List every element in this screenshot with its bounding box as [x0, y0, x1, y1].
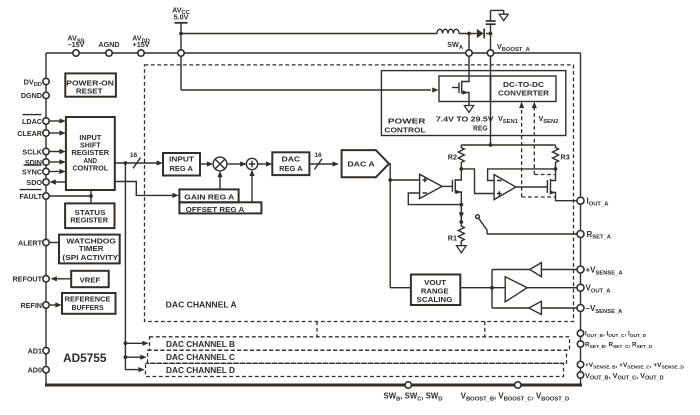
wire minus sense to pin	[541, 307, 577, 309]
DAC CHANNEL A dashed box	[145, 65, 574, 322]
DAC REG A box	[272, 152, 309, 175]
pin SW_BCD bottom	[384, 382, 443, 403]
arrowhead into reg box	[432, 87, 438, 92]
pin ALERT	[18, 238, 59, 247]
wire R2 node to amp2 plus	[461, 169, 494, 194]
STATUS REGISTER box	[65, 203, 114, 228]
POWER-ON RESET label	[66, 78, 114, 95]
DAC CHANNEL C label	[166, 353, 235, 362]
svg-text:DC-TO-DC: DC-TO-DC	[503, 80, 545, 89]
svg-text:POWER: POWER	[388, 117, 426, 126]
node AVCC junction dot	[179, 32, 183, 36]
wire AVCC to power control	[181, 89, 431, 91]
DAC A pentagon	[342, 150, 389, 177]
wire plus sense to pin	[541, 269, 577, 271]
wire AVCC vertical	[180, 23, 182, 90]
svg-text:DAC A: DAC A	[347, 160, 375, 169]
pin SW_A	[447, 40, 472, 56]
wire inductor to diode	[459, 33, 477, 35]
node R2 bottom dot	[459, 167, 463, 171]
svg-text:CLEAR: CLEAR	[17, 129, 43, 138]
bus width slash 16	[130, 152, 141, 168]
AD5755 label	[63, 351, 107, 365]
DAC A label	[347, 160, 375, 169]
DC-TO-DC CONVERTER box	[491, 76, 557, 102]
chip boundary top edge	[46, 52, 581, 54]
wire dac a to vout scaling	[390, 287, 411, 289]
VSEN2 dashed sense line	[532, 102, 555, 175]
pin REFOUT	[12, 275, 71, 284]
svg-text:VBOOST_B, VBOOST_C, VBOOST_D: VBOOST_B, VBOOST_C, VBOOST_D	[461, 392, 569, 403]
svg-text:16: 16	[314, 152, 322, 159]
svg-text:16: 16	[130, 152, 138, 159]
svg-text:AGND: AGND	[98, 40, 119, 49]
buffer plus sense	[530, 263, 542, 277]
node R3 bottom dot	[554, 167, 558, 171]
POWER-ON RESET box	[65, 73, 116, 96]
DAC CHANNEL A label	[166, 301, 237, 310]
schottky diode D1	[477, 29, 484, 39]
pin AVDD	[132, 34, 150, 57]
svg-text:SCALING: SCALING	[417, 295, 453, 304]
svg-text:CONTROL: CONTROL	[72, 163, 108, 172]
capacitor C1	[486, 10, 496, 33]
ground symbol under reg box	[464, 106, 473, 113]
wire upper sense	[492, 269, 530, 271]
svg-text:REG: REG	[473, 123, 488, 132]
svg-text:AD5755: AD5755	[63, 351, 107, 365]
ground symbol below R1	[457, 246, 467, 253]
svg-text:VSEN1: VSEN1	[498, 114, 519, 125]
WATCHDOG TIMER label	[62, 237, 121, 262]
inductor L1	[437, 29, 459, 33]
wire input reg to multiplier	[200, 161, 213, 166]
rail VBOOST to R2 R3	[461, 144, 555, 146]
svg-text:REFERENCE: REFERENCE	[65, 295, 111, 304]
svg-text:TIMER: TIMER	[79, 244, 104, 253]
wire sense branch vertical	[491, 270, 493, 309]
svg-text:BUFFERS: BUFFERS	[72, 303, 104, 312]
wire SW_A down to mosfet drain	[462, 56, 469, 81]
svg-text:DAC CHANNEL B: DAC CHANNEL B	[166, 340, 235, 349]
svg-text:SWA: SWA	[447, 40, 464, 51]
pin AVSS	[67, 34, 84, 57]
svg-text:REFOUT: REFOUT	[12, 275, 42, 284]
svg-text:RESET: RESET	[76, 87, 103, 96]
svg-text:–VSENSE_A: –VSENSE_A	[586, 304, 624, 315]
node SW junction dot	[467, 32, 471, 36]
wire gain reg to multiplier	[217, 171, 222, 190]
VSEN1 dashed sense line	[519, 102, 556, 197]
pin +VSENSE_BCD	[577, 361, 684, 370]
node bus junction dot	[124, 161, 128, 165]
svg-text:SCLK: SCLK	[22, 147, 42, 156]
svg-text:VREF: VREF	[80, 275, 101, 284]
DAC CHANNEL D label	[166, 366, 235, 375]
svg-text:CONTROL: CONTROL	[384, 125, 426, 134]
svg-text:5.0V: 5.0V	[174, 12, 189, 21]
wire to RSET pin	[487, 233, 577, 235]
pin VBOOST_BCD bottom	[461, 382, 569, 403]
resistor R1	[448, 222, 465, 245]
wire to amp1 plus input	[390, 179, 419, 181]
buffer amp output A	[505, 277, 527, 302]
node feeder dot C	[124, 355, 147, 360]
OFFSET REG A box	[179, 202, 261, 213]
buffer minus sense	[529, 301, 542, 314]
svg-text:+15V: +15V	[133, 40, 150, 49]
pin SYNC	[22, 165, 66, 176]
svg-text:VOUT_B, VOUT_C, VOUT_D: VOUT_B, VOUT_C, VOUT_D	[585, 371, 664, 382]
svg-text:AD1: AD1	[28, 346, 42, 355]
7.4V TO 29.5V REG box	[439, 76, 491, 102]
svg-text:IOUT_A: IOUT_A	[587, 197, 610, 208]
VOUT RANGE SCALING box	[411, 275, 460, 306]
VREF box	[71, 271, 109, 287]
node source dot	[459, 203, 463, 207]
node R1 top dot	[459, 220, 463, 224]
wire R3 node feedback to amp2 minus	[488, 169, 556, 181]
svg-text:REG A: REG A	[170, 164, 194, 173]
INPUT SHIFT REGISTER AND CONTROL label	[71, 133, 109, 172]
DAC REG A label	[279, 155, 303, 173]
resistor R2	[448, 145, 465, 169]
svg-text:–15V: –15V	[68, 40, 85, 49]
transistor Q1	[452, 169, 461, 205]
multiplier node	[213, 157, 227, 171]
POWER CONTROL outer box	[381, 71, 565, 136]
transistor Q2	[547, 169, 577, 201]
svg-text:RSET_A: RSET_A	[587, 230, 612, 241]
VOUT RANGE SCALING label	[417, 278, 453, 304]
node feeder dot B	[124, 341, 149, 346]
wire vout scaling to buffer	[460, 287, 505, 289]
wire main data bus	[115, 160, 163, 165]
svg-text:IOUT_B, IOUT_C, IOUT_D: IOUT_B, IOUT_C, IOUT_D	[585, 331, 647, 339]
switch contact circle	[476, 215, 480, 219]
pin SDO	[26, 178, 65, 187]
pin VOUT_BCD	[577, 371, 663, 382]
pin REFIN	[20, 301, 61, 310]
wire offset reg to adder	[249, 170, 254, 203]
chip boundary right edge	[580, 53, 582, 385]
svg-text:R3: R3	[561, 153, 570, 162]
pin +VSENSE_A	[577, 266, 623, 277]
DAC CHANNEL B label	[166, 340, 235, 349]
switch blade	[479, 218, 487, 234]
pin AD0	[28, 366, 50, 375]
op-amp A1	[420, 174, 442, 198]
svg-text:DAC CHANNEL C: DAC CHANNEL C	[166, 353, 235, 362]
wire shiftreg to gain reg	[115, 182, 179, 198]
OFFSET REG A label	[186, 205, 245, 214]
node dac a branch dot	[388, 178, 392, 182]
svg-text:R1: R1	[448, 234, 457, 243]
node rail dot	[489, 143, 493, 147]
svg-text:7.4V TO 29.5V: 7.4V TO 29.5V	[436, 115, 494, 124]
VREF label	[80, 275, 101, 284]
svg-text:DAC CHANNEL A: DAC CHANNEL A	[166, 301, 237, 310]
pin AVCC on rail	[178, 50, 184, 56]
pin LDAC	[22, 115, 66, 126]
REFERENCE BUFFERS label	[65, 295, 111, 313]
pin IOUT_A	[577, 197, 609, 208]
7.4V TO 29.5V REG label	[436, 115, 494, 133]
wire VBOOST down through power box	[490, 56, 492, 145]
svg-text:REGISTER: REGISTER	[70, 216, 108, 225]
pin IOUT_BCD	[577, 330, 646, 339]
pin AGND	[98, 40, 119, 56]
svg-text:DVDD: DVDD	[24, 77, 42, 88]
pin DVDD	[24, 77, 50, 88]
POWER CONTROL label	[384, 117, 426, 135]
AVCC supply label	[172, 5, 191, 21]
DAC CHANNEL D dashed box	[146, 363, 564, 376]
node buffer input dot	[490, 286, 494, 290]
VSEN1 label	[498, 114, 519, 125]
wire amp1 feedback	[408, 193, 461, 205]
REFERENCE BUFFERS box	[62, 293, 116, 314]
pin DGND	[21, 91, 49, 100]
pin RSET_BCD	[577, 341, 652, 350]
wire 5V rail to inductor	[181, 33, 437, 35]
wire SW_A stub	[468, 34, 470, 51]
pin VBOOST_A	[487, 42, 530, 56]
svg-text:+VSENSE_B, +VSENSE_C, +VSENSE_: +VSENSE_B, +VSENSE_C, +VSENSE_D	[585, 362, 684, 370]
svg-text:(SPI ACTIVITY): (SPI ACTIVITY)	[62, 253, 121, 262]
wire mosfet source to ground	[468, 102, 470, 106]
pin AD1	[28, 346, 50, 355]
pin RSET_A	[577, 230, 612, 241]
bus width slash 16 second	[314, 152, 322, 169]
WATCHDOG TIMER box	[59, 235, 120, 264]
ground symbol top right	[499, 14, 508, 20]
wire multiplier to adder	[227, 161, 247, 166]
svg-text:RSET_B, RSET_C, RSET_D: RSET_B, RSET_C, RSET_D	[585, 342, 653, 350]
wire feeder arrow D	[138, 367, 144, 372]
svg-text:CONVERTER: CONVERTER	[498, 89, 550, 98]
svg-text:SDO: SDO	[26, 178, 42, 187]
svg-text:DGND: DGND	[21, 91, 42, 100]
transistor M1 in reg box	[452, 81, 469, 102]
GAIN REG A box	[179, 189, 238, 202]
wire dac reg to dac a	[309, 161, 338, 166]
svg-text:INPUT: INPUT	[169, 155, 195, 164]
INPUT REG A box	[163, 153, 200, 176]
pin -VSENSE_A	[577, 304, 623, 315]
DAC CHANNEL B dashed box	[150, 337, 570, 350]
AVCC supply bar	[175, 22, 188, 24]
svg-text:FAULT: FAULT	[19, 192, 42, 201]
pin SDIN	[25, 158, 66, 167]
svg-text:DAC CHANNEL D: DAC CHANNEL D	[166, 366, 235, 375]
chip boundary bottom edge (thick)	[45, 384, 582, 387]
dashed stub A-to-B left	[316, 322, 318, 338]
wire cap to ground	[491, 10, 504, 14]
svg-text:DAC: DAC	[282, 155, 301, 164]
op-amp A2	[494, 175, 516, 200]
svg-text:REG A: REG A	[279, 164, 303, 173]
svg-text:SWB, SWC, SWD: SWB, SWC, SWD	[384, 392, 443, 403]
STATUS REGISTER label	[70, 208, 108, 225]
svg-text:VBOOST_A: VBOOST_A	[497, 42, 531, 53]
svg-text:ALERT: ALERT	[18, 238, 43, 247]
pin VOUT_A	[577, 284, 611, 295]
DC-TO-DC CONVERTER label	[498, 80, 550, 98]
resistor R3	[553, 145, 570, 169]
wire amp2 output to gate	[516, 186, 548, 188]
node VBOOST junction dot	[486, 32, 492, 36]
wire diode to VBOOST pin	[490, 34, 492, 51]
dashed stub A-to-B right	[484, 322, 486, 338]
wire dac a output down	[389, 164, 390, 288]
pin SCLK	[22, 147, 65, 156]
svg-text:+VSENSE_A: +VSENSE_A	[586, 266, 624, 277]
pin FAULT	[19, 190, 91, 201]
wire current arrow to R1	[459, 205, 464, 222]
svg-text:SYNC: SYNC	[22, 167, 42, 176]
INPUT SHIFT REGISTER AND CONTROL box	[66, 117, 115, 190]
svg-text:VOUT_A: VOUT_A	[586, 284, 612, 295]
node FAULT junction dot	[89, 190, 93, 203]
DAC CHANNEL C dashed box	[148, 350, 567, 363]
adder node	[246, 158, 257, 169]
svg-text:VSEN2: VSEN2	[539, 114, 559, 125]
svg-text:REFIN: REFIN	[20, 301, 42, 310]
wire lower sense	[492, 307, 529, 309]
wire amp1 output to gate	[442, 185, 452, 187]
pin CLEAR	[17, 129, 65, 138]
VSEN2 label	[539, 114, 559, 125]
svg-text:LDAC: LDAC	[22, 117, 42, 126]
svg-text:AD0: AD0	[28, 366, 42, 375]
wire channel BCD feeder vertical	[125, 163, 139, 370]
chip boundary left edge	[45, 53, 47, 385]
wire adder to dac reg	[258, 161, 273, 166]
svg-text:OFFSET REG A: OFFSET REG A	[186, 205, 245, 214]
svg-text:R2: R2	[448, 153, 457, 162]
svg-text:GAIN REG A: GAIN REG A	[184, 193, 235, 202]
INPUT REG A label	[169, 155, 195, 173]
wire buffer to VOUT_A	[527, 287, 577, 289]
GAIN REG A label	[184, 193, 235, 202]
